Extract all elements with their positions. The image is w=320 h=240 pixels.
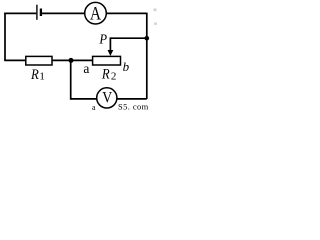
svg-text:R: R — [30, 67, 39, 83]
bottom-right wire to voltmeter — [117, 98, 147, 100]
svg-text:2: 2 — [111, 70, 117, 82]
svg-text:1: 1 — [39, 71, 45, 83]
ammeter U1 circle — [85, 2, 107, 24]
wire R1 to R2 (node a) — [52, 59, 93, 61]
voltmeter U2 circle — [97, 88, 117, 108]
slider arrowhead P — [108, 50, 114, 56]
svg-text:a: a — [92, 103, 96, 111]
svg-text:R: R — [101, 67, 110, 83]
right bus wire vertical — [146, 13, 148, 99]
battery long thin plate (positive) — [36, 5, 38, 20]
wire voltmeter to left branch — [71, 98, 97, 100]
svg-text:b: b — [123, 59, 130, 74]
left bus wire vertical — [4, 13, 6, 61]
battery short thick plate (negative) — [40, 9, 42, 17]
junction dot right — [145, 36, 150, 41]
svg-text:A: A — [90, 2, 102, 24]
svg-text:V: V — [102, 89, 112, 106]
bottom-left wire to R1 — [4, 59, 26, 61]
wire top-left from left bus to battery — [4, 12, 36, 14]
wire ammeter to top-right corner — [107, 12, 147, 14]
watermark fragment right edge — [154, 9, 157, 12]
junction dot left — [69, 58, 74, 63]
resistor R1 box — [26, 56, 52, 65]
slider wire horizontal from right bus — [110, 37, 146, 39]
resistor R2 box — [93, 56, 121, 65]
slider arrow vertical — [109, 37, 111, 50]
svg-text:S5. com: S5. com — [118, 102, 149, 112]
svg-text:P: P — [98, 31, 107, 47]
wire battery to ammeter — [42, 12, 85, 14]
voltmeter branch vertical wire — [70, 60, 72, 99]
svg-text:a: a — [83, 61, 89, 76]
